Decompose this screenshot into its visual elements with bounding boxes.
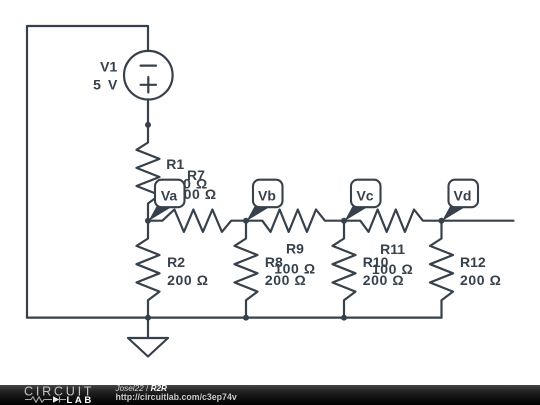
resistor R1 [137,125,160,221]
voltage source V1 [124,51,173,100]
resistor R9 [246,210,344,232]
svg-text:LAB: LAB [67,395,94,405]
wire top from left loop to V1 [27,26,148,318]
svg-text:http://circuitlab.com/c3ep74v: http://circuitlab.com/c3ep74v [116,392,237,402]
bus junction 3 [341,315,347,321]
node flag Vb [247,180,283,221]
node flag Vd [442,180,478,221]
node Vc [341,218,347,224]
resistor R7 [148,210,246,232]
bus junction 1 [145,315,151,321]
node Va [145,218,151,224]
ground bus wire [27,317,442,319]
resistor R8 [235,221,258,318]
wire V1 bottom to junction [147,100,149,125]
resistor R2 [137,221,160,318]
logo diode [53,396,59,402]
bus junction 2 [243,315,249,321]
node flag Vc [345,180,381,221]
node flag Va [149,180,185,221]
resistor R12 [430,221,453,318]
junction below V1 [145,122,151,128]
ground [128,318,168,357]
node Vd [439,218,445,224]
wire right of Vd [442,220,514,222]
node Vb [243,218,249,224]
logo schematic glyph [25,397,66,403]
footer bar [0,385,540,405]
resistor R11 [344,210,442,232]
resistor R10 [333,221,356,318]
